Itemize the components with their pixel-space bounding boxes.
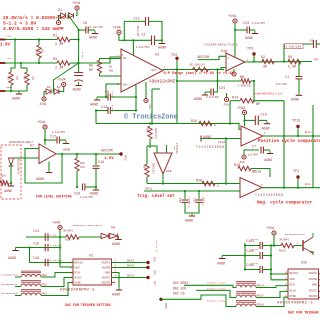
svg-text:+10mV+ADCCOM(1:1)+A: +10mV+ADCCOM(1:1)+A [254, 93, 283, 96]
wire SCK row [196, 290, 236, 297]
junction IN+ ref [105, 96, 107, 98]
svg-text:+5VA: +5VA [228, 15, 237, 19]
diode U4b [110, 233, 118, 238]
junction R2 top [38, 38, 40, 40]
op-amp U7 [39, 144, 56, 164]
wire R15 to IC1A IN+ [230, 124, 241, 130]
wire R15 to R14 row [229, 101, 231, 124]
test point TP13 [292, 120, 300, 129]
comparator IC1A [241, 126, 263, 146]
wire RG caps vertical [135, 85, 137, 111]
wire caps to ground [185, 202, 199, 213]
junction C1 tap [298, 60, 300, 62]
junction C20 left [76, 186, 78, 188]
svg-text:D3: D3 [57, 86, 61, 89]
svg-text:HPF: HPF [314, 59, 319, 62]
+5VA supply U2 [52, 222, 62, 230]
wire hysteresis vertical [225, 139, 227, 184]
capacitor C1 [296, 77, 303, 79]
svg-text:IN-: IN- [123, 57, 128, 60]
svg-text:R15: R15 [191, 120, 197, 124]
wire TP13 stem [297, 128, 299, 136]
svg-text:C18: C18 [261, 114, 267, 118]
wire U1B in1 stub [147, 146, 157, 153]
junction C16 [59, 261, 61, 263]
wire FB17 to SCLK [256, 291, 288, 297]
capacitor C8 [86, 27, 88, 34]
svg-text:NP: NP [256, 103, 260, 107]
ground AGND trig caps [185, 213, 195, 224]
svg-text:5-1.2 = 3.8V: 5-1.2 = 3.8V [3, 21, 36, 27]
ground AGND level shift [4, 183, 14, 194]
svg-text:DAC1: DAC1 [145, 188, 152, 191]
junction gnd row [10, 90, 12, 92]
svg-text:DAC2: DAC2 [127, 264, 134, 267]
ferrite bead FB2 [21, 284, 41, 287]
svg-text:C31: C31 [193, 198, 196, 203]
svg-text:VOUTB: VOUTB [309, 278, 318, 281]
svg-text:R3: R3 [53, 58, 57, 62]
wire U1B in2 stub [166, 145, 168, 153]
wire U3 V- stub [145, 82, 147, 98]
svg-text:SCLK: SCLK [75, 276, 82, 279]
test point TP3 [247, 48, 256, 56]
capacitor C16 [45, 259, 48, 267]
svg-text:AGND: AGND [89, 37, 97, 41]
junction D1 mid [67, 14, 69, 16]
wire C103 right [262, 245, 271, 247]
svg-text:TP56: TP56 [164, 303, 167, 310]
wire U1A OUT row [245, 61, 312, 64]
svg-text:TP11: TP11 [124, 155, 127, 162]
junction C23 tap [234, 29, 236, 31]
junction TP3 out [253, 60, 255, 62]
wire C16 row to REF10 [30, 248, 74, 263]
wire R1 to C8 node [70, 39, 79, 41]
svg-text:AD5664RBRMZ-5: AD5664RBRMZ-5 [60, 289, 95, 293]
wire C31 stem [198, 191, 200, 199]
wire REF10 stub U35 [271, 273, 288, 275]
wire to R2 [38, 40, 40, 46]
+5VA supply D3 [58, 79, 67, 87]
svg-text:-5VA: -5VA [148, 103, 151, 110]
svg-text:1M: 1M [31, 76, 34, 80]
svg-text:VDD: VDD [290, 278, 295, 281]
diode U4a [101, 233, 109, 238]
ferrite bead FB18 [236, 304, 256, 307]
svg-text:VOUTC: VOUTC [309, 289, 318, 292]
svg-text:+5VA: +5VA [237, 107, 246, 111]
junction hysteresis top [225, 137, 227, 139]
wire U4 right [117, 235, 120, 237]
wire VOUTA DAC1 [112, 262, 147, 264]
test point TP4 [293, 170, 300, 179]
wire C1 bottom [298, 79, 300, 93]
wire R11 left [60, 236, 66, 238]
wire C5 row [284, 43, 314, 45]
svg-text:10K(1%): 10K(1%) [152, 163, 156, 174]
junction rail [59, 246, 61, 248]
resistor R1 [57, 37, 70, 41]
wire +5VA to U3 V+ [132, 40, 134, 55]
capacitor C7 [261, 147, 263, 154]
wire R7 to U1A IN- [218, 68, 226, 70]
wire FB14 to DIN [256, 286, 288, 288]
wire C15 row [16, 247, 61, 249]
svg-text:4.99K(1%): 4.99K(1%) [238, 84, 252, 88]
svg-text:R11: R11 [66, 239, 71, 242]
svg-text:R6: R6 [109, 66, 113, 69]
capacitor C31 [196, 200, 203, 202]
svg-text:IC1A: IC1A [218, 141, 225, 144]
svg-text:Neg. cycle comparator: Neg. cycle comparator [257, 201, 313, 206]
wire C19 bottom [95, 168, 97, 190]
svg-text:1uF/16V: 1uF/16V [276, 82, 287, 86]
svg-text:D1: D1 [58, 9, 62, 13]
wire +5VA stem U1A [234, 23, 236, 56]
ferrite bead FB14 [236, 285, 256, 288]
svg-text:AGND: AGND [63, 149, 70, 152]
wire C18 left [245, 119, 256, 121]
svg-text:SYNC: SYNC [290, 295, 297, 298]
resistor R34 10K [145, 164, 149, 177]
svg-text:R14: R14 [232, 97, 238, 101]
wire C1 stem [298, 62, 300, 77]
wire C8 right [88, 29, 95, 31]
svg-text:BLFL-: BLFL- [305, 183, 313, 186]
wire FB18 to SYNC [256, 297, 288, 306]
wire U3 OUT row [163, 69, 224, 71]
junction C24 tap [216, 68, 218, 70]
svg-text:AGND: AGND [90, 193, 98, 197]
wire main feedback row [96, 123, 230, 125]
svg-text:0R/BEAD 0.1x2mA: 0R/BEAD 0.1x2mA [207, 282, 226, 285]
capacitor C105 [260, 252, 262, 259]
op-amp U1B [154, 153, 172, 174]
wire R8 right [251, 80, 255, 82]
resistor R18 [0, 181, 9, 185]
wire D1 junction diagonal rail [69, 16, 79, 64]
resistor R3 [57, 61, 70, 65]
junction TP13 out [297, 135, 299, 137]
svg-text:DIN: DIN [290, 284, 295, 287]
svg-text:C1: C1 [285, 76, 289, 80]
resistor R35 10K [148, 126, 152, 139]
wire R19 right [251, 169, 270, 178]
svg-text:-5VA: -5VA [222, 104, 229, 107]
svg-text:SIG+: SIG+ [7, 35, 13, 38]
svg-text:2.2M: 2.2M [55, 67, 63, 71]
svg-text:0.1uF: 0.1uF [111, 92, 114, 99]
wire R14 right [254, 100, 284, 102]
svg-text:AD8591AUJZ RB521S30T1G: AD8591AUJZ RB521S30T1G [73, 224, 103, 227]
svg-text:TP3: TP3 [247, 48, 253, 52]
svg-text:+5VA: +5VA [113, 27, 122, 31]
svg-text:C24: C24 [219, 87, 225, 91]
-5VA supply U3 [144, 98, 148, 102]
svg-text:3.8V/0.0200 = 132 mmPP: 3.8V/0.0200 = 132 mmPP [3, 26, 64, 32]
junction C14 R11 [59, 236, 61, 238]
junction REF10 [270, 273, 272, 275]
svg-text:AGND: AGND [112, 243, 120, 247]
diode D1b [69, 13, 74, 18]
junction C13 left [95, 109, 97, 111]
wire AGND to caps rail [222, 255, 245, 257]
-5VA supply [56, 20, 60, 24]
-5VA supply IC1B [242, 155, 246, 159]
svg-text:TP13: TP13 [292, 120, 300, 124]
svg-text:0.1uF/16V: 0.1uF/16V [50, 259, 63, 262]
svg-text:AGND: AGND [36, 178, 44, 182]
junction C9 RG [135, 96, 137, 98]
svg-text:0.1uF: 0.1uF [252, 238, 259, 241]
capacitor C18 [255, 116, 258, 126]
svg-text:R2: R2 [41, 49, 44, 53]
wire C11 top [78, 63, 80, 73]
junction U7 fb [61, 153, 63, 155]
junction R15 right [229, 122, 231, 124]
wire C23 right [249, 29, 255, 31]
wire U1A V- stub [233, 69, 235, 72]
wire C18 right [259, 119, 267, 121]
svg-text:AGND: AGND [112, 294, 120, 298]
svg-text:1uF/50V: 1uF/50V [248, 154, 259, 157]
resistor R8 4.99K [241, 79, 250, 83]
ground AGND C18 [262, 121, 271, 132]
wire GND to AGND [112, 273, 120, 288]
ground AGND caps rail [8, 248, 19, 262]
ground AGND C11 [73, 82, 82, 93]
capacitor C20 [83, 184, 85, 191]
svg-text:VOUTA: VOUTA [309, 272, 318, 275]
svg-text:0.1uF/50V: 0.1uF/50V [136, 46, 150, 49]
svg-text:+5VA: +5VA [266, 227, 275, 231]
ground AGND C17 [63, 141, 69, 144]
svg-text:+5VA: +5VA [58, 79, 67, 83]
svg-text:U1B: U1B [166, 170, 172, 173]
wire -5VA to D2 [44, 92, 46, 97]
svg-text:TLV3702IDGK: TLV3702IDGK [255, 193, 284, 197]
junction C15 left [28, 246, 30, 248]
wire CS row [161, 295, 236, 307]
svg-text:SL_FL_3V3: SL_FL_3V3 [155, 239, 158, 252]
wire U1A V- stub [226, 93, 228, 97]
wire FB1 to DIN [41, 273, 73, 278]
wire U3 IN+ stub [106, 83, 121, 85]
wire R14 left [230, 100, 240, 102]
wire C106 left [245, 269, 260, 271]
resistor R4 5.6K [288, 59, 301, 63]
junction U1B out [162, 182, 164, 184]
svg-text:DAC FOR TRIGGER SE: DAC FOR TRIGGER SE [288, 312, 320, 316]
wire ref stub [152, 88, 160, 90]
svg-text:AGND: AGND [245, 37, 253, 41]
junction R8 TP3 [253, 80, 255, 82]
wire C9 left [97, 96, 108, 98]
ground AGND Q1 [217, 256, 225, 267]
resistor R2 3K [262, 59, 274, 63]
junction fb IC1B [283, 187, 285, 189]
wire +5VA stem U2 [59, 230, 61, 267]
junction R164 rail [273, 244, 275, 246]
wire emitter stub [312, 251, 314, 255]
junction D6 R18 [10, 182, 12, 184]
svg-text:REF10: REF10 [75, 261, 84, 264]
wire U1B out stem [162, 174, 164, 184]
svg-text:R18: R18 [1, 175, 6, 178]
wire IN+ to ref node [105, 84, 107, 97]
svg-text:C14: C14 [33, 230, 39, 234]
wire C20 right [85, 186, 96, 188]
resistor R2 10M [37, 45, 41, 58]
svg-text:0.1uF: 0.1uF [252, 248, 259, 251]
svg-text:U35: U35 [301, 262, 307, 266]
IC U35 AD5664 [288, 269, 319, 299]
test point TP2 [171, 54, 179, 60]
svg-text:AGND: AGND [8, 257, 16, 261]
wire C17 right [59, 139, 66, 141]
junction TP4 out [297, 187, 299, 189]
value C5 boxed [285, 44, 304, 49]
ground AGND C8 [89, 31, 98, 41]
resistor R6 1M [25, 72, 29, 85]
junction C12 tap [123, 39, 125, 41]
svg-text:GNDS: GNDS [7, 86, 13, 89]
wire U7 IN+ to D6 [11, 157, 39, 159]
test point TP5 [146, 261, 149, 264]
wire D1 to +5VA [76, 10, 77, 15]
wire +5VA stem U35 [273, 235, 275, 245]
svg-text:5.6K: 5.6K [288, 66, 297, 70]
resistor R19 NP [238, 166, 251, 170]
+5VA supply IC1A [237, 107, 247, 115]
wire rail link [271, 245, 274, 247]
pin stub U2 VOUTD [112, 282, 116, 284]
op-amp U1A [226, 53, 245, 71]
connector pin stub IN- [0, 62, 6, 64]
svg-text:C13: C13 [101, 106, 107, 110]
junction fb IC1A [283, 135, 285, 137]
svg-text:DAC FOR TRIGGER SETTING: DAC FOR TRIGGER SETTING [65, 303, 111, 307]
wire C13 left [96, 110, 108, 112]
wire FB2 left [15, 286, 21, 288]
test point TP6 [146, 266, 149, 269]
svg-text:C30: C30 [178, 198, 181, 203]
svg-text:U3: U3 [155, 54, 159, 58]
svg-text:0.1uF/50V: 0.1uF/50V [52, 131, 65, 134]
wire +5VA U7 stem [44, 129, 46, 145]
svg-text:SYNC: SYNC [75, 281, 82, 284]
capacitor C17 [57, 137, 59, 144]
svg-text:0R/BEAD 0.1x2mA: 0R/BEAD 0.1x2mA [207, 300, 226, 303]
wire C9 right [110, 96, 136, 98]
svg-text:IN+: IN+ [123, 84, 128, 87]
wire U7 feedback loop [25, 149, 62, 184]
comparator IC1B [240, 178, 262, 198]
svg-text:0.1uF: 0.1uF [111, 105, 114, 112]
junction row1 tap [14, 38, 16, 40]
wire R16 bottom [76, 171, 78, 187]
svg-text:AD5664RBRMZ-5: AD5664RBRMZ-5 [277, 302, 313, 306]
svg-text:AGND: AGND [291, 99, 299, 103]
wire C8 left [79, 29, 86, 31]
svg-text:AGND: AGND [217, 263, 225, 267]
+5VA supply U1A [228, 15, 237, 23]
wire C2 right [155, 39, 162, 41]
wire caps left rail [244, 243, 246, 270]
svg-text:2.2M: 2.2M [55, 43, 63, 47]
wire diagonal to clamp [54, 63, 79, 92]
svg-text:VOUTB: VOUTB [102, 266, 111, 269]
ground AGND input [12, 91, 22, 102]
svg-text:+5VA: +5VA [72, 2, 81, 6]
wire C5 out edge [316, 43, 320, 45]
+5VA supply U7 [37, 121, 47, 129]
junction R35 top [149, 122, 151, 124]
junction C31 top [198, 190, 200, 192]
svg-text:0.1uF: 0.1uF [252, 262, 259, 265]
wire U7 out ADCCOM row [56, 153, 120, 155]
ground AGND C12 C2 [158, 40, 166, 50]
resistor R164 [281, 243, 294, 247]
svg-text:TP7: TP7 [153, 281, 156, 286]
svg-text:C9: C9 [105, 91, 109, 95]
svg-text:U7: U7 [30, 145, 34, 149]
svg-text:R28: R28 [196, 180, 202, 184]
capacitor C12 [146, 17, 149, 26]
capacitor C14 [45, 233, 48, 241]
wire R5 top to RG1 [100, 59, 122, 61]
svg-text:-5VA: -5VA [38, 103, 47, 107]
+5VA supply [72, 2, 81, 10]
+5VA supply U35 [266, 227, 276, 235]
svg-text:BLM18AG601SN1D: BLM18AG601SN1D [1, 274, 19, 277]
svg-text:AGND: AGND [262, 128, 270, 132]
svg-text:OUT: OUT [152, 69, 157, 72]
svg-text:FB2: FB2 [42, 283, 48, 286]
capacitor C30 [182, 200, 189, 202]
wire input row 2 [5, 62, 57, 64]
wire row2 to R6 [21, 63, 27, 72]
wire R164 left [274, 245, 281, 247]
svg-text:GND: GND [312, 284, 317, 287]
wire R35 bottom [149, 139, 151, 148]
svg-text:0.1uF/50V: 0.1uF/50V [252, 22, 265, 25]
svg-text:TP2: TP2 [171, 54, 177, 58]
wire C12 left vertical [123, 21, 125, 40]
svg-text:VDD: VDD [75, 266, 80, 269]
wire row1 to R9 [11, 40, 15, 73]
ground AGND C9 [90, 97, 100, 108]
wire C14 row [26, 236, 60, 238]
resistor R5 NP [97, 60, 101, 73]
svg-text:10uF/16V: 10uF/16V [136, 26, 139, 38]
ground AGND C19 [90, 187, 99, 197]
svg-text:DAC CS: DAC CS [173, 291, 185, 295]
wire right rail vertical [312, 105, 314, 188]
wire C103 left [245, 245, 260, 247]
resistor R14 NP [240, 99, 254, 103]
svg-text:DAC MOSI: DAC MOSI [173, 281, 188, 285]
ground AGND IC1A IN- [201, 136, 211, 142]
svg-text:AD8422ARMZ: AD8422ARMZ [149, 80, 176, 85]
wire C30 stem [184, 191, 186, 199]
wire TP4 stem [297, 179, 299, 188]
svg-text:C17: C17 [50, 136, 56, 140]
svg-text:3K(NP): 3K(NP) [63, 229, 73, 233]
ground AGND C1 [291, 93, 302, 103]
-5VA supply U1A [224, 97, 228, 101]
